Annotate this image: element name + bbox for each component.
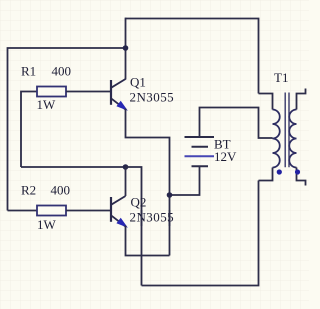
wire secondary top lead with stub	[297, 89, 306, 110]
svg-text:2N3055: 2N3055	[130, 210, 175, 225]
svg-text:T1: T1	[274, 70, 288, 85]
svg-text:1W: 1W	[37, 97, 57, 112]
transformer core	[285, 93, 289, 168]
svg-text:2N3055: 2N3055	[130, 90, 175, 105]
wire R1 left lead	[21, 92, 37, 168]
wire Q1 emitter to battery negative rail	[126, 109, 170, 256]
transistor Q2	[111, 196, 126, 227]
wire transformer primary top lead	[259, 94, 273, 110]
wire cross-coupling Q1 collector to R2 (top left)	[8, 48, 126, 211]
junction dot Q1 collector / R2	[123, 45, 129, 51]
svg-text:R1: R1	[21, 64, 36, 79]
svg-text:1W: 1W	[37, 217, 57, 232]
wire transformer primary bottom lead	[259, 168, 273, 181]
transformer primary winding	[273, 110, 280, 168]
wire Q2 collector vertical to junction	[125, 167, 127, 196]
svg-text:400: 400	[51, 182, 71, 197]
wire battery negative lead	[170, 166, 200, 195]
wire battery positive to transformer center tap	[200, 108, 273, 139]
svg-text:Q2: Q2	[131, 195, 147, 210]
svg-text:12V: 12V	[214, 149, 237, 164]
wire secondary bottom lead with stub	[297, 168, 306, 186]
wire R2 left lead	[8, 210, 38, 212]
wire Q2 collector node to bottom rail	[126, 167, 142, 286]
transformer secondary winding	[289, 110, 296, 168]
battery BT	[185, 137, 215, 166]
wire bottom rail to transformer primary bottom	[142, 181, 259, 286]
resistor R2	[37, 206, 66, 216]
polarity dot primary	[277, 169, 282, 174]
wire R1 right lead to Q1 base	[66, 91, 111, 93]
wire segment over Q2 label (x=169.5)	[169, 210, 171, 226]
wire segment over Q2 label (x=141.5)	[141, 210, 143, 226]
junction dot battery negative / emitter rail	[167, 192, 173, 198]
wire cross-coupling R1 to Q2 collector node	[21, 166, 126, 168]
transistor Q1	[111, 79, 126, 110]
wire top rail from Q1 collector to transformer primary top	[126, 19, 259, 94]
svg-text:400: 400	[52, 64, 72, 79]
wire Q2 emitter to battery negative rail	[126, 226, 170, 256]
junction dot Q2 collector / R1	[123, 164, 129, 170]
svg-text:R2: R2	[21, 182, 36, 197]
resistor R1	[37, 87, 66, 97]
svg-text:Q1: Q1	[130, 75, 146, 90]
polarity dot secondary	[295, 169, 300, 174]
wire R2 right lead to Q2 base	[66, 210, 111, 212]
wire Q1 collector vertical	[125, 18, 127, 80]
